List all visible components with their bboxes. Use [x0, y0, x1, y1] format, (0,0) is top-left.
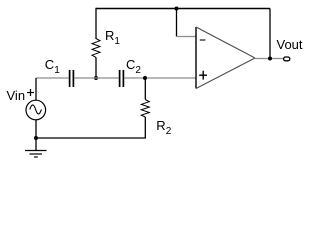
label Vin plus polarity [27, 89, 34, 96]
wire R2 bottom vertical [144, 117, 146, 138]
resistor R1 [92, 39, 100, 58]
wire Vin to C1 [36, 77, 69, 79]
junction node minus feedback [175, 7, 179, 11]
wire C1 to C2 [74, 77, 118, 79]
wire R2 top vertical [144, 78, 146, 100]
wire minus input horizontal [177, 36, 197, 38]
wire Vin top vertical [35, 78, 37, 101]
wire op-amp output [255, 58, 284, 60]
junction node output feedback [268, 57, 272, 61]
wire bottom return [36, 137, 146, 139]
wire Vin bottom vertical [35, 120, 37, 151]
op-amp plus pin mark [199, 71, 207, 80]
wire feedback right vertical [269, 9, 271, 59]
wire minus input vertical [176, 9, 178, 37]
capacitor C1 [70, 70, 74, 87]
capacitor C2 [120, 70, 124, 87]
ground [25, 151, 47, 158]
wire top feedback horizontal [96, 8, 270, 10]
source Vin [26, 100, 46, 120]
junction node ground [34, 136, 38, 140]
wire C2 to op-amp plus input [124, 77, 196, 79]
svg-text:Vin: Vin [7, 88, 26, 103]
junction node between C1 and C2 [94, 76, 98, 80]
wire R1 top vertical [95, 8, 97, 39]
op-amp minus pin mark [200, 39, 206, 41]
terminal Vout [284, 57, 290, 61]
op-amp U1 [196, 27, 255, 89]
junction node plus input / R2 [143, 76, 147, 80]
resistor R2 [141, 100, 149, 118]
wire R1 bottom vertical [95, 57, 97, 78]
svg-text:Vout: Vout [277, 37, 303, 52]
